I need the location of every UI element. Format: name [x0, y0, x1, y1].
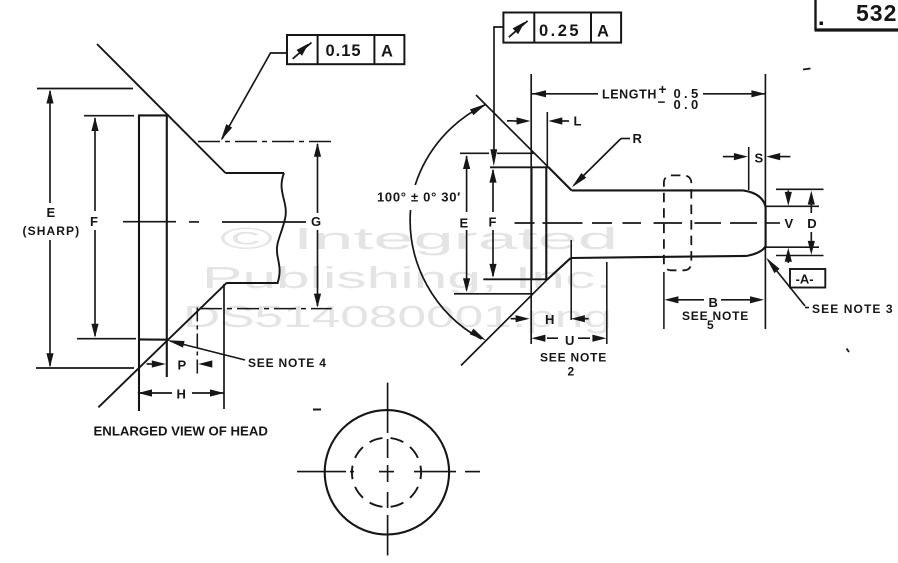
upper flank: [549, 167, 572, 190]
P phantom vertical line: [196, 308, 198, 378]
head top edge with extension: [490, 166, 549, 168]
main centerline: [515, 222, 781, 224]
svg-text:A: A: [597, 23, 609, 41]
svg-text:-A-: -A-: [796, 272, 814, 287]
D bottom extension line: [776, 255, 824, 257]
F bottom extension line: [77, 338, 136, 340]
svg-text:SEE NOTE 4: SEE NOTE 4: [248, 356, 327, 370]
artifact dot right: [847, 349, 850, 353]
SEE NOTE 4 leader: [170, 341, 245, 360]
datum A flag: [790, 269, 825, 288]
V top extension line: [766, 205, 819, 207]
F top extension line: [84, 115, 134, 117]
E main bottom extension line: [454, 293, 534, 295]
svg-text:0.25: 0.25: [539, 22, 581, 40]
dimension S: [723, 156, 734, 158]
L right extension line: [546, 112, 548, 166]
svg-text:H: H: [545, 312, 554, 327]
svg-text:−: −: [658, 95, 666, 110]
svg-text:D: D: [807, 216, 816, 231]
dimension L: [507, 120, 513, 122]
svg-text:E: E: [460, 215, 469, 230]
dimension H: [138, 392, 172, 394]
100 degree angle arc lower: [410, 210, 481, 339]
dimension H main: [511, 318, 516, 320]
dimension E (SHARP): [49, 91, 51, 366]
feature control frame 0.15 leader: [222, 53, 287, 139]
SEE NOTE 3 leader: [768, 260, 805, 306]
svg-text:G: G: [311, 214, 321, 229]
svg-text:SEE NOTE 3: SEE NOTE 3: [812, 302, 894, 316]
lower flank with sharp extension: [98, 283, 227, 408]
feature control frame 0.25 box: [503, 13, 621, 43]
pitch dashed circle: [352, 438, 421, 507]
svg-text:0.0: 0.0: [674, 97, 702, 112]
centerline enlarged view: [123, 221, 306, 223]
svg-text:532: 532: [856, 0, 897, 26]
shank bottom edge: [571, 256, 747, 258]
100 degree angle arc upper: [415, 105, 485, 185]
wavy break line: [277, 173, 286, 283]
feature control frame 0.25 leader: [494, 27, 503, 153]
outer circle: [325, 410, 449, 534]
svg-text:100° ± 0° 30′: 100° ± 0° 30′: [377, 190, 461, 205]
svg-text:F: F: [489, 215, 497, 230]
E top extension line: [37, 88, 133, 90]
R leader: [621, 138, 630, 140]
dimension B: [664, 296, 678, 303]
head land line: [166, 116, 168, 378]
lower flank: [548, 258, 571, 279]
dimension LENGTH: [532, 93, 598, 95]
shank top edge: [226, 172, 285, 174]
svg-text:H: H: [177, 387, 186, 402]
LENGTH right extension line: [764, 74, 766, 329]
E main top extension line: [460, 152, 489, 154]
shank bottom edge: [227, 282, 279, 284]
svg-text:SEE NOTE: SEE NOTE: [682, 309, 749, 323]
svg-text:R: R: [633, 131, 643, 146]
vertical centerline: [387, 383, 389, 556]
svg-text:P: P: [178, 358, 187, 373]
svg-text:S: S: [755, 150, 764, 165]
upper flank sharp extension: [476, 95, 549, 167]
svg-text:5: 5: [707, 318, 714, 332]
title block box top right: [815, 0, 898, 30]
E bottom extension line: [36, 367, 134, 369]
U right extension line: [606, 262, 608, 344]
head land line: [545, 167, 547, 279]
dimension D: [810, 202, 812, 213]
svg-text:2: 2: [568, 365, 575, 379]
dimension P arrows: [147, 363, 154, 365]
svg-text:LENGTH: LENGTH: [602, 88, 657, 102]
svg-text:(SHARP): (SHARP): [23, 224, 81, 238]
upper flank with sharp extension: [97, 44, 226, 173]
dimension F: [94, 118, 96, 336]
S left extension line: [748, 147, 750, 190]
svg-text:V: V: [785, 216, 794, 231]
head top edge: [138, 114, 169, 116]
dimension E main: [466, 156, 468, 290]
svg-text:E: E: [47, 205, 56, 220]
head bottom edge with extension: [483, 278, 548, 280]
B left extension line: [663, 272, 665, 329]
feature control frame 0.15 box: [287, 35, 404, 64]
H extension line right: [223, 284, 225, 409]
H main right extension line: [570, 240, 572, 320]
V bottom extension line: [766, 246, 819, 248]
svg-text:F: F: [90, 214, 98, 229]
head bottom edge: [138, 338, 168, 340]
head face extension line (LENGTH/H): [530, 74, 532, 344]
svg-text:0.15: 0.15: [326, 42, 362, 60]
svg-text:A: A: [381, 43, 393, 61]
dimension G: [317, 144, 319, 306]
head face line: [138, 116, 140, 412]
dimension F main: [492, 170, 494, 276]
head face line: [530, 167, 532, 279]
artifact dash top right: [803, 69, 811, 70]
svg-text:SEE NOTE: SEE NOTE: [540, 351, 607, 365]
horizontal centerline: [297, 471, 480, 473]
runout symbol 2: [509, 21, 528, 37]
D top extension line: [776, 188, 824, 190]
artifact dash near circle: [313, 409, 321, 411]
G top tangent line (phantom): [198, 141, 332, 143]
G bottom tangent line (phantom): [200, 308, 332, 310]
svg-text:ENLARGED VIEW OF HEAD: ENLARGED VIEW OF HEAD: [94, 424, 268, 439]
title block dot: [820, 22, 824, 26]
shank end cap: [743, 190, 766, 256]
runout symbol: [293, 43, 312, 59]
svg-text:U: U: [565, 333, 574, 348]
shank top edge: [572, 189, 744, 191]
lower flank sharp extension: [461, 279, 548, 365]
dimension U: [531, 335, 545, 342]
dimension V: [787, 191, 789, 195]
grip boundary dashed rectangle: [664, 175, 691, 270]
svg-text:L: L: [574, 114, 582, 129]
